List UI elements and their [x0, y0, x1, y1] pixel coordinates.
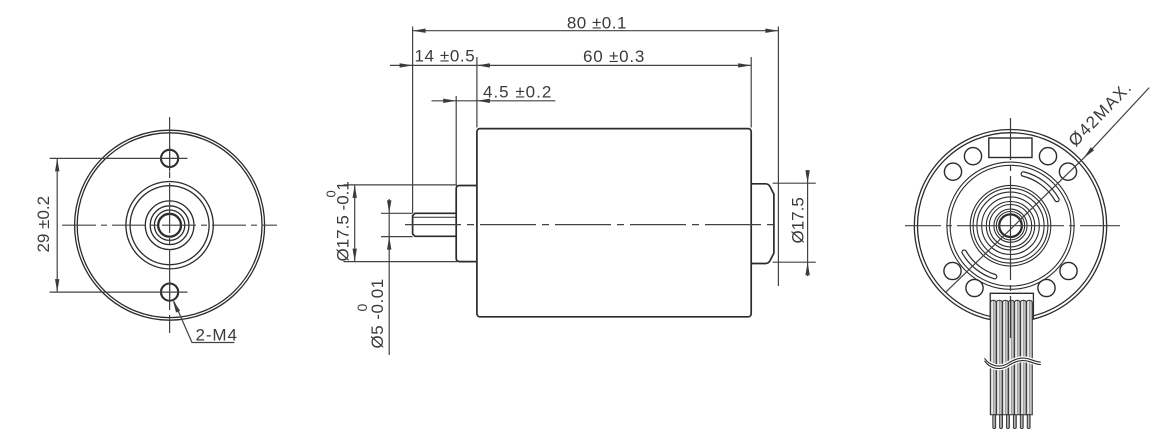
rear ring r37	[973, 188, 1048, 263]
dimension line D5	[388, 199, 390, 355]
vent hole 4	[1059, 163, 1076, 180]
svg-text:4.5 ±0.2: 4.5 ±0.2	[483, 82, 552, 101]
shaft	[413, 213, 457, 236]
front boss circle D17.5	[130, 186, 209, 265]
arrow down-tip right D17.5	[805, 170, 809, 183]
dimension line D17.5 left	[354, 185, 356, 262]
wire end stubs	[993, 415, 1030, 429]
wire bundle (6 wires)	[990, 300, 1032, 414]
stub 5	[1020, 415, 1023, 429]
wire break squiggle line 2	[985, 361, 1041, 369]
extension line x=476.9	[476, 57, 478, 128]
stub 6	[1027, 415, 1030, 429]
stub 3	[1007, 415, 1010, 429]
leader arrow D42MAX	[1084, 147, 1095, 158]
svg-text:Ø5 -0.01: Ø5 -0.01	[368, 278, 387, 348]
rear ring r33.6	[977, 192, 1044, 259]
connector tab rectangle	[989, 138, 1032, 158]
bottom hole crossline / extension line 29 dim	[50, 291, 188, 293]
leader line 2-M4	[174, 302, 234, 343]
rear ring r13.7	[996, 212, 1024, 240]
rear ring r20.6	[989, 205, 1031, 247]
front boss rectangle	[456, 186, 477, 262]
dimension line 14 and 60	[390, 64, 751, 66]
extension line rear boss bottom	[773, 261, 816, 263]
bottom hole vertical crosshair solid	[169, 280, 171, 306]
extension line rear boss top	[773, 182, 816, 184]
svg-text:2-M4: 2-M4	[196, 326, 238, 345]
extension line boss bottom	[344, 261, 458, 263]
wire break squiggle white halo	[985, 359, 1041, 367]
wire 7	[1026, 300, 1032, 414]
stub 4	[1013, 415, 1016, 429]
arrow outside-left 4.5 dim	[443, 99, 456, 103]
arrow up-tip right D17.5	[805, 262, 809, 275]
stub 2	[1000, 415, 1003, 429]
leader tail to text D42MAX	[1084, 88, 1150, 159]
arrow outside-left 14 dim	[400, 63, 413, 67]
vent hole 8	[1038, 279, 1055, 296]
arrow outside-right 4.5 dim	[477, 99, 490, 103]
mounting hole bottom M4	[161, 284, 178, 301]
arrow up-tip D5 bottom	[387, 237, 391, 250]
svg-text:0: 0	[354, 304, 370, 312]
arc slot upper right outline	[1023, 174, 1057, 200]
svg-text:60 ±0.3: 60 ±0.3	[583, 47, 645, 66]
left D5 dimension	[381, 199, 413, 355]
horizontal centerline rear view	[905, 225, 1120, 227]
leader line D42MAX through center	[946, 158, 1084, 292]
rear ring r40	[970, 185, 1051, 266]
arrow down D17.5 left	[353, 249, 357, 262]
centerline middle view	[405, 224, 774, 226]
stub 1	[993, 415, 996, 429]
arrow left 80 dim	[413, 29, 426, 33]
right D17.5 dimension	[773, 170, 816, 276]
svg-text:80 ±0.1: 80 ±0.1	[567, 13, 627, 32]
front view outer flange circle	[75, 130, 265, 320]
arrow up D17.5 left	[353, 185, 357, 198]
rear ring r16.5	[994, 209, 1027, 242]
arrow down-tip D5 top	[387, 200, 391, 213]
rear outer circle	[914, 130, 1106, 322]
wire 6	[1020, 300, 1026, 414]
front shaft circle D5 bold	[158, 214, 181, 237]
wire 3	[1002, 300, 1008, 414]
front boss chamfer circle	[126, 182, 213, 269]
wire 5	[1014, 300, 1020, 414]
vent hole 1	[964, 148, 981, 165]
motor body rectangle	[477, 129, 751, 317]
extension line shaft bottom	[381, 236, 413, 238]
arrow up 29 dim	[55, 158, 59, 171]
front bearing ring circle	[145, 201, 194, 250]
arrow left 60 dim (shared right arrow of 14)	[477, 63, 490, 67]
arc slot lower left outline	[964, 252, 994, 276]
shaft chamfer line	[413, 216, 456, 218]
rear face double circle inner	[950, 165, 1071, 286]
left D17.5 dimension	[344, 185, 458, 262]
vent hole 6	[966, 279, 983, 296]
extension line x=751.2	[750, 57, 752, 128]
rear shaft hole bold circle	[999, 214, 1022, 237]
extension line shaft top	[381, 212, 413, 214]
rear boss outline with chamfers	[751, 184, 774, 264]
wire 2	[996, 300, 1002, 414]
rear face double circle outer	[947, 162, 1074, 289]
mounting hole top M4	[161, 150, 178, 167]
vent hole 2	[944, 163, 961, 180]
extension line at shaft end x=412.6	[412, 27, 414, 214]
svg-text:29 ±0.2: 29 ±0.2	[34, 196, 53, 253]
rear ring r28.8	[982, 197, 1040, 255]
svg-text:0: 0	[324, 190, 339, 197]
arrow down 29 dim	[55, 279, 59, 292]
wire 1	[990, 300, 996, 414]
arrow right 80 dim	[765, 29, 778, 33]
dimension line 29	[56, 158, 58, 292]
wire break squiggle line 1	[985, 358, 1041, 366]
arrow right 60 dim	[738, 63, 751, 67]
vent hole 3	[1039, 148, 1056, 165]
rear inner rim circle	[918, 133, 1104, 319]
rear ring r21.2	[986, 202, 1034, 250]
leader arrow 2-M4	[173, 300, 181, 313]
front view flange inner rim circle	[77, 133, 262, 318]
svg-text:Ø17.5: Ø17.5	[789, 197, 808, 243]
grommet rectangle at wire exit	[990, 293, 1033, 319]
extension line x=778.4	[777, 27, 779, 287]
horizontal centerline left view	[62, 224, 277, 226]
vent hole 5	[944, 262, 961, 279]
extension line boss top	[344, 184, 458, 186]
front ring circle	[150, 206, 189, 245]
dimension line 80	[413, 30, 779, 32]
vertical centerline left view	[169, 117, 171, 333]
top hole vertical crosshair solid	[169, 146, 171, 172]
front ring circle small	[154, 210, 184, 240]
svg-text:14 ±0.5: 14 ±0.5	[415, 46, 476, 65]
wire 4	[1008, 300, 1014, 414]
vent hole 7	[1060, 262, 1077, 279]
dimension line D17.5 right	[807, 170, 809, 276]
top hole crossline / extension line 29 dim	[50, 157, 188, 159]
extension line x=456 for 4.5 dim	[455, 96, 457, 186]
dimension line 4.5	[432, 100, 556, 102]
vertical centerline rear view over wires	[1010, 118, 1012, 338]
